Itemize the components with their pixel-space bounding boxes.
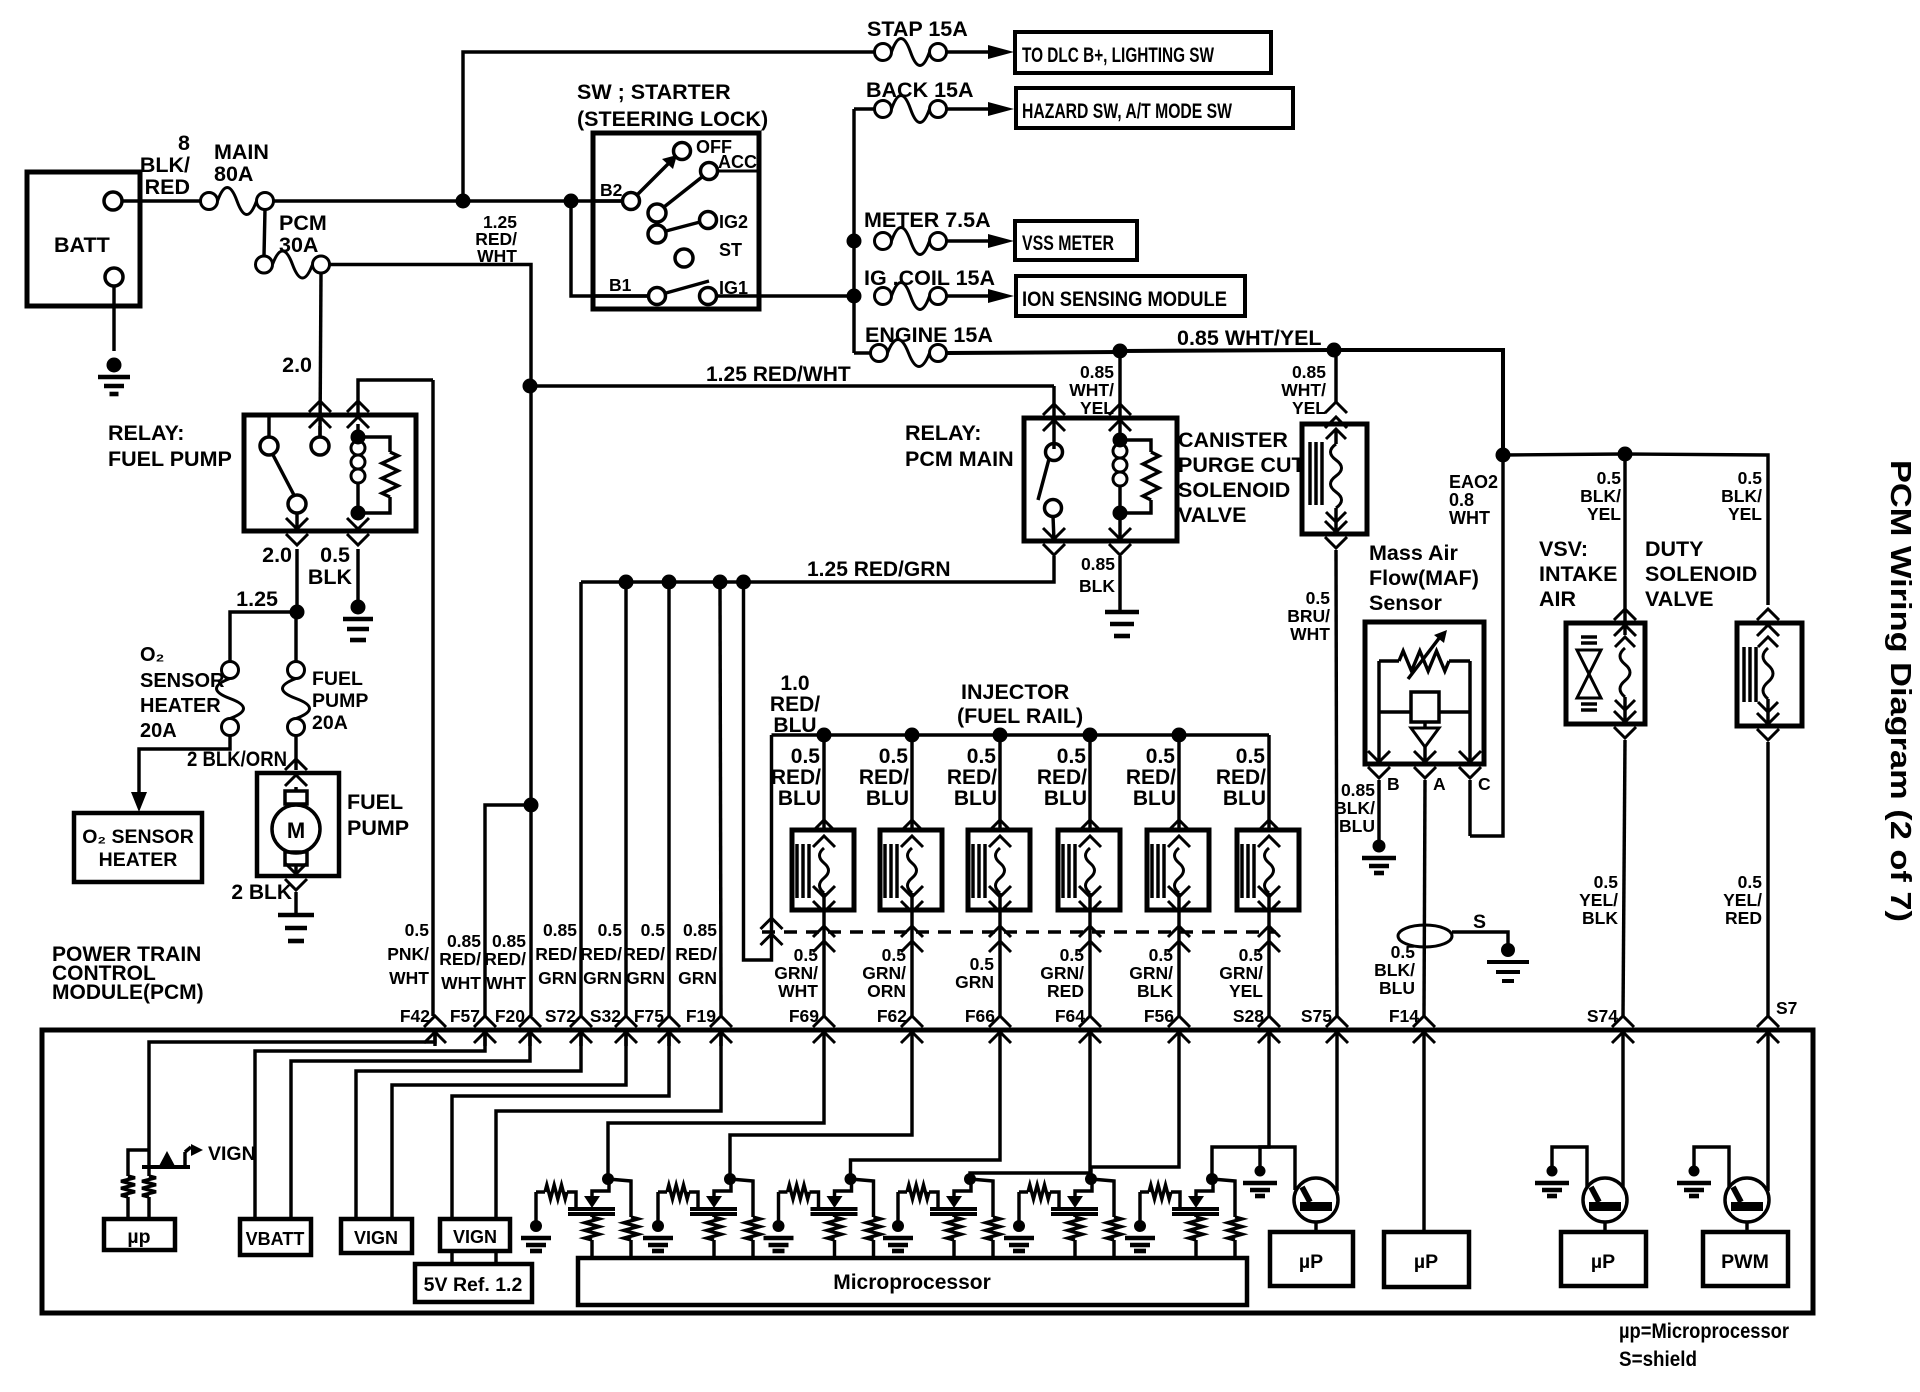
svg-text:S74: S74 xyxy=(1587,1006,1618,1026)
relay common terminal xyxy=(311,437,329,455)
svg-text:AIR: AIR xyxy=(1539,587,1577,611)
wire Q3 emitter xyxy=(1745,1222,1748,1232)
svg-text:YEL: YEL xyxy=(1728,504,1762,524)
svg-text:BLK: BLK xyxy=(1079,576,1115,596)
node PCM MAIN relay feed xyxy=(1113,344,1128,359)
connector chevrons injector 1 at rail xyxy=(813,926,835,937)
box uP injector driver xyxy=(1270,1232,1353,1286)
node METER branch xyxy=(847,234,862,249)
terminal ACC xyxy=(701,163,718,180)
svg-text:BLU: BLU xyxy=(1223,787,1266,810)
svg-text:RED/: RED/ xyxy=(947,766,997,789)
svg-text:0.5: 0.5 xyxy=(794,945,819,965)
wire EAO2 down to MAF pin C xyxy=(1470,455,1503,836)
svg-text:IG2: IG2 xyxy=(719,212,748,232)
injector 6 box xyxy=(1237,830,1299,910)
terminal IG2 xyxy=(700,212,717,229)
box VSS METER xyxy=(1015,221,1137,260)
connector chevrons MAF pin C xyxy=(1459,767,1481,778)
svg-text:20A: 20A xyxy=(312,712,348,734)
injector 2 core bars xyxy=(883,844,886,898)
ground fuel pump xyxy=(278,913,314,918)
svg-text:0.85: 0.85 xyxy=(492,931,526,951)
svg-text:BLK/: BLK/ xyxy=(140,153,190,177)
relay PCM MAIN box xyxy=(1024,418,1177,541)
relay PCM MAIN coil parallel resistor xyxy=(1120,440,1151,452)
svg-text:0.5: 0.5 xyxy=(1594,872,1619,892)
wire canister to S75 xyxy=(1336,550,1337,1016)
box uP VSV driver xyxy=(1561,1232,1646,1286)
driver cell 6 transistor xyxy=(1172,1207,1219,1211)
svg-text:BRU/: BRU/ xyxy=(1287,606,1330,626)
transistor Q3 for S7 xyxy=(1725,1178,1769,1222)
svg-text:µP: µP xyxy=(1299,1251,1323,1273)
node IG COIL branch xyxy=(847,289,862,304)
wire ACC stub to box edge xyxy=(717,170,759,173)
MAF resistor arrow xyxy=(1408,637,1440,679)
svg-text:F20: F20 xyxy=(495,1006,525,1026)
base network Q3 xyxy=(1694,1147,1729,1187)
svg-text:METER 7.5A: METER 7.5A xyxy=(864,208,991,232)
svg-text:PNK/: PNK/ xyxy=(387,944,429,964)
driver cell 4 pull resistor right xyxy=(970,1179,993,1217)
injector 6 core bars xyxy=(1240,844,1243,898)
switch blade to IG2 xyxy=(666,222,700,231)
node fuel pump fuse junction xyxy=(290,605,305,620)
injector 3 wire to PCM xyxy=(998,932,1001,1016)
resistor to microprocessor right xyxy=(147,1167,150,1176)
connector chevrons into injector 5 xyxy=(1168,820,1190,831)
arrow into O2 sensor heater xyxy=(131,792,147,812)
svg-text:BLU: BLU xyxy=(1133,787,1176,810)
wire battery to MAIN fuse xyxy=(122,199,200,202)
svg-text:µp=Microprocessor: µp=Microprocessor xyxy=(1619,1319,1790,1343)
svg-text:GRN: GRN xyxy=(583,968,622,988)
DUTY solenoid coil xyxy=(1758,637,1778,647)
connector chevrons DUTY output xyxy=(1757,729,1779,740)
MAF pin B lead xyxy=(1377,712,1380,764)
driver cell 4 gate resistor xyxy=(898,1190,907,1193)
injector 4 coil xyxy=(1086,848,1095,893)
terminal ST xyxy=(675,249,693,267)
svg-text:BATT: BATT xyxy=(54,233,110,257)
injector 5 box xyxy=(1147,830,1209,910)
svg-text:BLK: BLK xyxy=(308,565,353,589)
wire EAO2 rail to VSV DUTY xyxy=(1503,454,1625,455)
svg-text:RED/: RED/ xyxy=(484,949,526,969)
DUTY solenoid box xyxy=(1737,623,1802,726)
svg-text:BLK/: BLK/ xyxy=(1721,486,1762,506)
driver cell 4 output wire to terminal xyxy=(970,1046,1090,1179)
injector 2 coil xyxy=(908,848,917,893)
connector chevrons canister output xyxy=(1325,537,1347,548)
driver cell 1 ground xyxy=(534,1192,537,1222)
svg-text:BLU: BLU xyxy=(1339,816,1375,836)
svg-text:HAZARD SW, A/T MODE SW: HAZARD SW, A/T MODE SW xyxy=(1022,99,1233,123)
svg-text:YEL: YEL xyxy=(1229,981,1263,1001)
relay fuel pump box xyxy=(244,415,416,531)
svg-text:VALVE: VALVE xyxy=(1645,587,1714,611)
wire MAIN fuse down to PCM fuse xyxy=(264,209,265,256)
switch blade B2 to OFF with arrow xyxy=(637,162,670,195)
driver cell 5 output wire to terminal xyxy=(1091,1046,1179,1179)
svg-text:RELAY:: RELAY: xyxy=(905,421,981,445)
svg-text:F62: F62 xyxy=(877,1006,907,1026)
svg-text:ENGINE 15A: ENGINE 15A xyxy=(865,323,993,347)
svg-text:GRN: GRN xyxy=(626,968,665,988)
wire IG1 to fuse bus xyxy=(717,294,854,297)
driver cell 3 output wire to terminal xyxy=(851,1046,1001,1179)
svg-text:RED/: RED/ xyxy=(770,693,820,716)
injector 5 coil xyxy=(1175,848,1184,893)
svg-text:30A: 30A xyxy=(279,233,318,257)
svg-text:0.5: 0.5 xyxy=(967,745,997,768)
svg-text:B2: B2 xyxy=(600,180,623,200)
fuse MAIN 80A xyxy=(201,193,218,210)
injector 6 feed wire xyxy=(1267,735,1270,830)
svg-text:GRN: GRN xyxy=(678,968,717,988)
svg-text:0.85: 0.85 xyxy=(1292,362,1326,382)
wire canister drop xyxy=(1334,350,1337,404)
connector chevrons into PCM MAIN relay coil xyxy=(1109,404,1131,415)
svg-text:2 BLK: 2 BLK xyxy=(231,881,292,904)
svg-text:µp: µp xyxy=(127,1226,150,1248)
svg-text:VALVE: VALVE xyxy=(1178,503,1247,527)
wire shield to ground xyxy=(1452,932,1508,944)
injector 1 box xyxy=(792,830,854,910)
ground battery xyxy=(107,358,122,373)
ground relay PCM MAIN coil xyxy=(1105,610,1139,615)
svg-text:FUEL PUMP: FUEL PUMP xyxy=(108,447,232,471)
svg-text:0.5: 0.5 xyxy=(879,745,909,768)
driver cell 2 source resistor xyxy=(712,1214,715,1217)
wire B2 stub xyxy=(593,199,622,202)
ground Q3 base xyxy=(1689,1166,1700,1177)
svg-text:F56: F56 xyxy=(1144,1006,1174,1026)
connector chevrons into DUTY solenoid xyxy=(1757,609,1779,620)
svg-text:SW ; STARTER: SW ; STARTER xyxy=(577,80,731,104)
svg-text:A: A xyxy=(1433,774,1446,794)
svg-text:WHT: WHT xyxy=(1290,624,1330,644)
svg-text:F64: F64 xyxy=(1055,1006,1085,1026)
svg-text:Flow(MAF): Flow(MAF) xyxy=(1369,566,1479,590)
driver cell 3 transistor xyxy=(811,1207,858,1211)
svg-text:VIGN: VIGN xyxy=(208,1143,256,1165)
svg-text:F14: F14 xyxy=(1389,1006,1419,1026)
svg-text:BLU: BLU xyxy=(1379,978,1415,998)
connector chevrons relay coil output xyxy=(347,534,369,545)
driver cell 6 source resistor xyxy=(1194,1214,1197,1217)
connector chevrons into injector 6 xyxy=(1258,820,1280,831)
svg-text:RED/: RED/ xyxy=(439,949,481,969)
box Microprocessor xyxy=(578,1258,1247,1305)
svg-text:RED/: RED/ xyxy=(675,944,717,964)
wire fuel pump fuse top xyxy=(294,612,297,662)
fuse PCM 30A xyxy=(256,256,273,273)
svg-text:2.0: 2.0 xyxy=(262,543,292,567)
wire VSV drop xyxy=(1623,454,1626,635)
injector 4 core bars xyxy=(1061,844,1064,898)
switch blade B1 to IG1 xyxy=(666,281,709,293)
driver cell 2 gate resistor xyxy=(658,1190,667,1193)
transistor Q2 for S74 xyxy=(1583,1178,1627,1222)
switch blade ACC chain xyxy=(664,177,702,207)
injector 3 core bars xyxy=(971,844,974,898)
wire S75 collector xyxy=(1335,1046,1338,1191)
injector 5 feed wire xyxy=(1172,728,1187,743)
injector 2 box xyxy=(880,830,942,910)
wire Q1 emitter xyxy=(1314,1222,1317,1232)
driver cell 2 ground xyxy=(656,1192,659,1222)
injector 5 wire to PCM xyxy=(1177,932,1180,1016)
svg-text:BLK/: BLK/ xyxy=(1374,960,1415,980)
svg-text:PCM Wiring Diagram (2 of 7): PCM Wiring Diagram (2 of 7) xyxy=(1884,460,1916,922)
svg-text:GRN/: GRN/ xyxy=(774,963,818,983)
wire S7 collector xyxy=(1766,1046,1769,1191)
svg-text:0.5: 0.5 xyxy=(598,920,623,940)
driver cell 6 ground xyxy=(1138,1192,1141,1222)
svg-text:0.5: 0.5 xyxy=(1236,745,1266,768)
svg-text:1.25 RED/WHT: 1.25 RED/WHT xyxy=(706,363,851,386)
connector chevrons injector 1 output xyxy=(813,886,835,897)
connector chevrons injector 5 output xyxy=(1168,886,1190,897)
svg-text:WHT: WHT xyxy=(1449,508,1490,528)
terminal OFF xyxy=(674,143,691,160)
wire fuse to fuel pump xyxy=(294,735,297,770)
node 1.25 RED/WHT junction xyxy=(523,379,538,394)
svg-text:WHT: WHT xyxy=(441,973,481,993)
driver cell 3 pull resistor right xyxy=(851,1179,874,1217)
svg-text:ST: ST xyxy=(719,240,742,260)
wire VSV to S74 xyxy=(1623,740,1625,1016)
connector chevrons fuel pump output xyxy=(285,879,307,890)
node junction to B1 branch xyxy=(564,194,579,209)
svg-text:PWM: PWM xyxy=(1721,1251,1769,1273)
wire F75 internal routing xyxy=(452,1030,669,1219)
relay PCM MAIN fixed contact xyxy=(1046,444,1063,461)
wire DUTY to S7 xyxy=(1766,742,1769,1016)
svg-text:0.5: 0.5 xyxy=(1738,468,1763,488)
svg-text:PCM MAIN: PCM MAIN xyxy=(905,447,1014,471)
relay fixed contact xyxy=(260,437,278,455)
svg-text:INTAKE: INTAKE xyxy=(1539,562,1617,586)
svg-text:8: 8 xyxy=(178,131,190,155)
relay coil parallel resistor xyxy=(358,437,390,452)
wire arrow to HAZARD box xyxy=(947,107,990,110)
injector 3 box xyxy=(968,830,1030,910)
ground Q1 base xyxy=(1255,1166,1266,1177)
wire PCM fuse down to fuel pump relay xyxy=(320,273,321,437)
svg-text:F19: F19 xyxy=(686,1006,716,1026)
svg-text:0.85 WHT/YEL: 0.85 WHT/YEL xyxy=(1177,326,1322,350)
connector chevrons into relay switch xyxy=(1043,404,1065,415)
box TO DLC B+, LIGHTING SW xyxy=(1015,32,1271,73)
svg-text:0.5: 0.5 xyxy=(970,954,995,974)
svg-text:RED/: RED/ xyxy=(859,766,909,789)
svg-text:MODULE(PCM): MODULE(PCM) xyxy=(52,981,204,1004)
svg-text:0.5: 0.5 xyxy=(882,945,907,965)
box VBATT xyxy=(240,1219,311,1255)
wire 1.25 RED/WHT to PCM MAIN relay xyxy=(530,384,1054,387)
node bus drop S32 xyxy=(662,575,677,590)
driver cell 1 transistor xyxy=(568,1207,615,1211)
svg-text:PUMP: PUMP xyxy=(312,690,368,712)
battery negative terminal xyxy=(105,268,123,286)
svg-text:FUEL: FUEL xyxy=(312,668,363,690)
relay PCM MAIN switch blade xyxy=(1038,459,1049,500)
terminal contact upper middle xyxy=(648,204,666,222)
svg-text:SOLENOID: SOLENOID xyxy=(1178,478,1290,502)
svg-text:0.8: 0.8 xyxy=(1449,490,1474,510)
svg-text:YEL: YEL xyxy=(1587,504,1621,524)
connector chevrons into canister solenoid xyxy=(1325,402,1347,413)
wire B1 branch xyxy=(571,201,648,296)
svg-text:WHT/: WHT/ xyxy=(1281,380,1326,400)
svg-text:SOLENOID: SOLENOID xyxy=(1645,562,1757,586)
svg-text:RED/: RED/ xyxy=(580,944,622,964)
driver cell 3 source resistor xyxy=(833,1214,836,1217)
injector 2 feed wire xyxy=(905,728,920,743)
svg-text:O₂ SENSOR: O₂ SENSOR xyxy=(82,826,194,848)
injector 4 wire to PCM xyxy=(1088,932,1091,1016)
canister solenoid coil xyxy=(1334,430,1337,444)
ground relay coil xyxy=(351,600,366,615)
box uP MAF input xyxy=(1384,1232,1469,1287)
transistor Q1 for S75 xyxy=(1294,1178,1338,1222)
svg-text:RED/: RED/ xyxy=(1037,766,1087,789)
connector chevrons into injector 3 xyxy=(989,820,1011,831)
wire to F20 xyxy=(529,805,532,1016)
svg-text:2.0: 2.0 xyxy=(282,353,312,377)
svg-text:CANISTER: CANISTER xyxy=(1178,428,1288,452)
fuel pump motor M xyxy=(272,805,320,853)
terminal contact lower middle xyxy=(648,225,666,243)
wire rail to EAO2 corner xyxy=(1331,350,1503,455)
relay output wire xyxy=(295,513,298,531)
wire F42 internal routing xyxy=(149,1030,435,1166)
relay output contact xyxy=(288,495,306,513)
wire S32 internal routing xyxy=(392,1030,626,1219)
svg-text:(FUEL RAIL): (FUEL RAIL) xyxy=(957,704,1083,728)
wire relay coil to ground xyxy=(1118,513,1121,541)
connector chevrons into injector 4 xyxy=(1079,820,1101,831)
svg-text:YEL/: YEL/ xyxy=(1723,890,1762,910)
wire BACK fuse stub xyxy=(854,107,874,110)
box O2 SENSOR HEATER xyxy=(74,813,202,882)
injector 1 feed wire xyxy=(817,728,832,743)
svg-text:0.5: 0.5 xyxy=(641,920,666,940)
terminal IG1 xyxy=(700,288,717,305)
connector chevrons injector 3 at rail xyxy=(989,926,1011,937)
wire VIGN2 to 5V ref xyxy=(450,1251,453,1264)
svg-text:0.5: 0.5 xyxy=(1391,942,1416,962)
wire F14 to uP xyxy=(1422,1046,1425,1232)
box VIGN 2 xyxy=(440,1219,510,1251)
MAF pin C lead xyxy=(1468,712,1471,764)
svg-text:WHT/: WHT/ xyxy=(1069,380,1114,400)
svg-text:WHT: WHT xyxy=(486,973,526,993)
MAF sensor box xyxy=(1365,622,1484,764)
svg-text:PUMP: PUMP xyxy=(347,816,409,840)
injector 4 feed wire xyxy=(1083,728,1098,743)
relay PCM MAIN coil xyxy=(1113,433,1128,448)
driver cell 5 ground xyxy=(1017,1192,1020,1222)
svg-text:C: C xyxy=(1478,774,1491,794)
MAF output triangle xyxy=(1423,722,1426,728)
svg-text:VSV:: VSV: xyxy=(1539,537,1588,561)
svg-text:0.85: 0.85 xyxy=(543,920,577,940)
node canister feed xyxy=(1327,343,1342,358)
wire relay coil drop xyxy=(1118,351,1121,437)
svg-text:µP: µP xyxy=(1414,1251,1438,1273)
connector chevrons coil into relay xyxy=(347,401,369,412)
svg-text:WHT: WHT xyxy=(389,968,429,988)
connector chevrons relay PCM MAIN coil output xyxy=(1109,544,1131,555)
svg-text:RED: RED xyxy=(1047,981,1084,1001)
wire bus drop to F75 xyxy=(667,582,670,1016)
svg-text:F69: F69 xyxy=(789,1006,819,1026)
wire Q2 emitter xyxy=(1603,1222,1606,1232)
fuse O2 SENSOR HEATER 20A xyxy=(222,662,239,679)
svg-text:0.5: 0.5 xyxy=(405,920,430,940)
svg-text:BLK/: BLK/ xyxy=(1334,798,1375,818)
relay PCM MAIN output wire xyxy=(1053,516,1054,541)
svg-text:RED/: RED/ xyxy=(771,766,821,789)
wire relay output to 1.25 RED/GRN bus xyxy=(581,556,1054,582)
svg-text:0.5: 0.5 xyxy=(791,745,821,768)
MAF bracket xyxy=(1377,661,1380,712)
connector chevrons relay switch output xyxy=(286,534,308,545)
box HAZARD SW, A/T MODE SW xyxy=(1016,88,1293,128)
driver cell 1 output wire to terminal xyxy=(608,1046,824,1179)
driver cell 2 transistor xyxy=(690,1207,737,1211)
box ION SENSING MODULE xyxy=(1016,276,1245,316)
wire bus drop to S32 xyxy=(624,582,627,1016)
wire relay coil top loop to F42 xyxy=(358,380,433,415)
box VIGN 1 xyxy=(341,1219,412,1253)
driver cell 4 ground xyxy=(896,1192,899,1222)
ground Q2 base xyxy=(1547,1166,1558,1177)
svg-text:0.5: 0.5 xyxy=(320,543,350,567)
svg-text:F57: F57 xyxy=(450,1006,480,1026)
connector chevrons into VSV xyxy=(1614,609,1636,620)
svg-text:GRN/: GRN/ xyxy=(862,963,906,983)
fuel pump brush upper xyxy=(294,787,297,791)
svg-text:0.5: 0.5 xyxy=(1738,872,1763,892)
svg-text:Mass Air: Mass Air xyxy=(1369,541,1458,565)
svg-text:B: B xyxy=(1387,774,1400,794)
wire junction up and right to STAP fuse xyxy=(463,52,874,201)
svg-text:VBATT: VBATT xyxy=(246,1229,305,1249)
svg-text:0.85: 0.85 xyxy=(1080,362,1114,382)
wire to O2 sensor heater fuse xyxy=(230,612,297,662)
svg-text:Microprocessor: Microprocessor xyxy=(833,1271,991,1294)
wire ENGINE fuse to 0.85 WHT/YEL rail xyxy=(947,352,1120,353)
svg-text:B1: B1 xyxy=(609,275,632,295)
svg-text:EAO2: EAO2 xyxy=(1449,472,1498,492)
svg-text:(STEERING LOCK): (STEERING LOCK) xyxy=(577,107,768,131)
svg-text:1.0: 1.0 xyxy=(780,672,809,695)
driver cell 1 gate resistor xyxy=(536,1190,545,1193)
ground shield xyxy=(1487,960,1529,964)
svg-text:0.5: 0.5 xyxy=(1597,468,1622,488)
relay switch blade xyxy=(272,453,295,497)
svg-text:0.85: 0.85 xyxy=(1081,554,1115,574)
svg-text:S=shield: S=shield xyxy=(1619,1347,1697,1371)
connector chevrons into injector 2 xyxy=(901,820,923,831)
wire S74 collector xyxy=(1621,1046,1624,1188)
relay PCM MAIN output contact xyxy=(1045,500,1062,517)
